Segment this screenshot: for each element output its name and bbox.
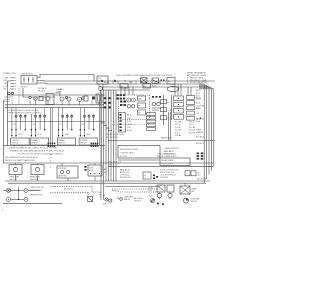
svg-text:(NOTE 7): (NOTE 7) bbox=[134, 200, 141, 202]
wire L1 top bus bbox=[37, 75, 94, 82]
svg-text:P1 P2 P3: P1 P2 P3 bbox=[120, 156, 127, 158]
oven light switch circle pair top bbox=[7, 189, 29, 193]
svg-text:(SEE NOTE 5): (SEE NOTE 5) bbox=[30, 190, 42, 192]
svg-text:W-16: W-16 bbox=[196, 121, 200, 123]
wire upper-left horizontal bbox=[7, 94, 105, 96]
surface element left front coil bbox=[29, 96, 37, 100]
wire code text column A bbox=[175, 122, 182, 138]
terminal strip TS1 cells bbox=[174, 96, 184, 119]
left border wire bbox=[3, 100, 5, 163]
wire L2 bus right half bbox=[100, 83, 203, 85]
svg-text:MOTOR: MOTOR bbox=[191, 201, 198, 203]
right upper wire code rows bbox=[196, 90, 201, 100]
ribbon staircase bends bbox=[101, 123, 112, 131]
convection motor symbol bbox=[184, 198, 200, 204]
right side wire bundle bbox=[199, 84, 214, 183]
infinite switch SW2 body box bbox=[30, 138, 48, 145]
wire bottom rail left bbox=[3, 203, 62, 205]
svg-text:P7-1 P7-2 P7-3: P7-1 P7-2 P7-3 bbox=[162, 163, 173, 165]
wire lower rails bbox=[5, 181, 210, 183]
svg-text:SWITCH: SWITCH bbox=[12, 143, 19, 145]
svg-text:ELECTRONIC OVEN: ELECTRONIC OVEN bbox=[120, 149, 138, 151]
surface element LF outer bbox=[46, 94, 54, 105]
wire N long bus bbox=[37, 80, 215, 83]
small box lower center bbox=[143, 172, 151, 179]
wire burner feed segment bbox=[23, 88, 55, 97]
terminal dark block bbox=[92, 97, 95, 100]
relay K2 box bbox=[143, 84, 151, 89]
lock assembly box bbox=[88, 165, 102, 176]
junction dot on N bus bbox=[124, 80, 125, 81]
cooling fan symbol bbox=[151, 199, 155, 203]
surface light indicator circles bbox=[8, 92, 14, 94]
wire left riser bbox=[6, 81, 8, 145]
relay boxes bottom right bbox=[157, 185, 174, 192]
wire right lower rail bbox=[108, 166, 213, 168]
junction box top right of burners bbox=[97, 76, 108, 84]
svg-text:R-16: R-16 bbox=[196, 96, 200, 98]
svg-text:POWER CORD: POWER CORD bbox=[3, 73, 16, 75]
svg-text:LOCK MOTOR BU-18: LOCK MOTOR BU-18 bbox=[160, 175, 176, 177]
relay K1 box bbox=[120, 84, 128, 89]
wire code column small bbox=[50, 154, 53, 168]
svg-text:OVEN: OVEN bbox=[196, 130, 201, 132]
svg-text:LATCH SW: LATCH SW bbox=[58, 175, 67, 178]
svg-text:P9-1 P9-2 P9-3 P9-4 P9-5: P9-1 P9-2 P9-3 P9-4 P9-5 LOCK SW GY-18 C… bbox=[18, 153, 63, 155]
svg-text:UNLOCK SW V-18: UNLOCK SW V-18 bbox=[160, 172, 174, 174]
svg-text:Y-18: Y-18 bbox=[196, 113, 199, 115]
oven lamp box 2 bbox=[30, 165, 44, 181]
svg-text:L1-BK: L1-BK bbox=[4, 77, 10, 79]
door latch switch box bbox=[57, 166, 78, 178]
svg-text:MOTOR DR-16: MOTOR DR-16 bbox=[120, 177, 131, 179]
text rows under EOC left bbox=[104, 162, 121, 174]
center bottom text bbox=[64, 187, 153, 197]
wire burner lower bus bbox=[5, 104, 104, 106]
right lower small boxes bbox=[185, 171, 201, 177]
door switch label right bbox=[196, 106, 205, 135]
svg-text:BK W R: BK W R bbox=[21, 86, 28, 88]
infinite switch SW1 body box bbox=[11, 138, 29, 145]
svg-text:SW COM BK-14 P9-9 GY-18 D: SW COM BK-14 P9-9 GY-18 DLB OR-14 bbox=[5, 157, 38, 159]
svg-text:OFF HI LO OFF HI LO: OFF HI LO OFF HI LO OFF HI LO OFF HI LO bbox=[8, 112, 43, 114]
transformer box bottom right bbox=[180, 186, 197, 194]
svg-text:P2-8 GY-18: P2-8 GY-18 bbox=[196, 143, 205, 145]
svg-text:BU-18 W-18: BU-18 W-18 bbox=[198, 179, 207, 181]
wire switch box drops bbox=[14, 145, 91, 148]
svg-text:N.C.: N.C. bbox=[198, 175, 202, 177]
fuse link box A bbox=[152, 78, 159, 84]
oven sensor circles bbox=[152, 102, 162, 112]
wire right mid rail bbox=[108, 140, 215, 142]
svg-text:K2: K2 bbox=[144, 86, 146, 88]
svg-text:P6-1 R: P6-1 R bbox=[109, 164, 115, 166]
wire switch crossing bus bbox=[7, 121, 105, 123]
dashed run upper bbox=[50, 187, 100, 197]
oven light switch circle pair bottom bbox=[7, 198, 29, 202]
svg-text:P1-6 BU: P1-6 BU bbox=[175, 135, 182, 137]
dark marks above sensor bbox=[152, 96, 161, 98]
svg-text:CONV W-14: CONV W-14 bbox=[120, 175, 129, 177]
svg-text:NOTE: DISCONNECT POWER BEFORE: NOTE: DISCONNECT POWER BEFORE SERVICING … bbox=[116, 75, 173, 77]
svg-text:H1 H2: H1 H2 bbox=[87, 134, 91, 136]
center bottom wires bbox=[105, 187, 160, 193]
svg-text:P10: P10 bbox=[98, 78, 101, 80]
oven lamp box 1 bbox=[9, 165, 22, 181]
svg-text:BK-16 W-16: BK-16 W-16 bbox=[64, 189, 73, 191]
svg-text:P1-2 W: P1-2 W bbox=[175, 124, 181, 126]
svg-text:BK-18: BK-18 bbox=[127, 115, 132, 117]
drops to terminal strips bbox=[175, 84, 191, 96]
svg-text:P2-3 BR: P2-3 BR bbox=[189, 127, 196, 129]
svg-text:1250W: 1250W bbox=[56, 92, 62, 94]
wire switch bottom rail bbox=[4, 144, 106, 146]
wire L2 branch bbox=[37, 83, 100, 84]
right lower text cluster bbox=[160, 169, 178, 179]
svg-text:DLB OR-14 (SEE NOTE 6): DLB OR-14 (SEE NOTE 6) bbox=[157, 156, 177, 158]
svg-text:GY-18: GY-18 bbox=[148, 187, 153, 189]
terminal block TB1 bbox=[21, 76, 37, 85]
infinite switch SW3 contacts bbox=[58, 114, 73, 137]
svg-text:1 2 3: 1 2 3 bbox=[13, 124, 16, 126]
wire drops bus to switches bbox=[12, 108, 85, 114]
limiter block right rear bbox=[84, 96, 88, 101]
svg-text:COM W-18: COM W-18 bbox=[160, 177, 168, 179]
svg-text:P8-2 R-12: P8-2 R-12 bbox=[38, 90, 46, 92]
svg-text:MERCURY SW: MERCURY SW bbox=[30, 194, 42, 196]
text rows mid lower left of boxes bbox=[120, 168, 131, 179]
svg-text:P1-4 OR: P1-4 OR bbox=[175, 130, 182, 132]
svg-text:40W 120V: 40W 120V bbox=[9, 179, 18, 181]
svg-text:Y-18: Y-18 bbox=[127, 127, 130, 129]
svg-text:OR-18: OR-18 bbox=[127, 124, 132, 126]
dotted separator row bbox=[112, 124, 150, 126]
svg-text:W-16: W-16 bbox=[196, 103, 200, 105]
svg-text:SURFACE UNIT SWITCHES (SEE NOT: SURFACE UNIT SWITCHES (SEE NOTE 4) P9-6 … bbox=[10, 150, 64, 153]
breaker box B bbox=[167, 78, 175, 85]
bottom small motor circles bbox=[103, 195, 112, 205]
plug symbol on N bus A bbox=[101, 80, 103, 82]
svg-text:P5-1 BK P5-2 W: P5-1 BK P5-2 W bbox=[109, 162, 121, 164]
svg-text:L.FRONT: L.FRONT bbox=[12, 140, 19, 142]
left burner text rows bbox=[4, 96, 11, 103]
spark module component bbox=[88, 197, 93, 202]
cable loop ellipse bbox=[167, 86, 179, 91]
component marks between boxes bbox=[161, 80, 165, 81]
wire bottom connections bbox=[11, 187, 41, 200]
svg-text:P4-1 GY P4-2 V: P4-1 GY P4-2 V bbox=[106, 137, 119, 139]
svg-text:CONTROL (EOC): CONTROL (EOC) bbox=[120, 153, 135, 155]
svg-text:P2-5 PK: P2-5 PK bbox=[189, 132, 196, 134]
svg-text:DOOR SW: DOOR SW bbox=[58, 168, 67, 170]
svg-text:H1 H2: H1 H2 bbox=[18, 134, 22, 136]
right mid cells grid bbox=[197, 153, 204, 160]
right corner note text block bbox=[187, 72, 208, 85]
right column extra rows bbox=[196, 137, 205, 146]
dark terminal grid upper right bbox=[117, 94, 126, 99]
svg-text:N.O.: N.O. bbox=[198, 172, 202, 174]
power cord label text bbox=[3, 73, 33, 75]
connector ladder P1 bbox=[119, 113, 132, 133]
svg-text:R.FRONT: R.FRONT bbox=[80, 140, 87, 142]
svg-text:SWITCH: SWITCH bbox=[80, 143, 87, 145]
svg-text:P2-7 BU-18: P2-7 BU-18 bbox=[196, 137, 205, 139]
bus labels right half bbox=[104, 82, 156, 87]
svg-text:BK-16 W-16: BK-16 W-16 bbox=[134, 198, 143, 200]
fuse box with X bbox=[141, 78, 148, 83]
limiter block left front bbox=[39, 96, 43, 100]
svg-text:XFMR: XFMR bbox=[192, 188, 197, 190]
wire aux bus bbox=[100, 86, 199, 88]
svg-text:H1 H2: H1 H2 bbox=[38, 134, 42, 136]
infinite switch SW4 contacts bbox=[80, 114, 95, 137]
svg-text:P4 BK-16: P4 BK-16 bbox=[112, 190, 119, 192]
svg-text:P2-4 TN: P2-4 TN bbox=[189, 130, 196, 132]
wire burner lower bus 2 bbox=[5, 107, 104, 109]
svg-text:P7: P7 bbox=[144, 175, 146, 177]
infinite switch SW2 contacts bbox=[31, 114, 46, 137]
svg-text:W-16: W-16 bbox=[196, 93, 200, 95]
power cord dashed boundary bbox=[12, 88, 19, 104]
svg-text:RELAY BOARD: RELAY BOARD bbox=[162, 159, 175, 162]
svg-text:OR-18: OR-18 bbox=[196, 98, 201, 100]
motor circles bottom right bbox=[157, 193, 172, 199]
right mid text rows bbox=[157, 153, 177, 158]
svg-text:W-18: W-18 bbox=[127, 118, 131, 120]
bottom right small marks bbox=[157, 179, 207, 205]
svg-text:P8-1 BK-12: P8-1 BK-12 bbox=[38, 88, 47, 90]
svg-text:L1-BK-12 H1-OR-14 H2-Y-14 L: L1-BK-12 H1-OR-14 H2-Y-14 L1-BK-12 H1-OR… bbox=[8, 148, 57, 150]
wire verticals into lamps bbox=[16, 163, 96, 181]
plug symbol on N bus B bbox=[114, 80, 116, 82]
text near disconnect area bbox=[38, 88, 47, 93]
svg-text:W-14: W-14 bbox=[152, 86, 156, 88]
svg-text:(SEE NOTE 3): (SEE NOTE 3) bbox=[161, 137, 172, 139]
svg-text:N.C.: N.C. bbox=[168, 102, 172, 104]
svg-text:N.O.: N.O. bbox=[168, 118, 172, 120]
lock motor switch column bbox=[161, 95, 172, 125]
wire code text column B bbox=[189, 122, 196, 135]
vertical harness ribbon bbox=[101, 90, 116, 200]
electronic oven control box bbox=[118, 146, 160, 159]
svg-text:SENSOR: SENSOR bbox=[196, 132, 204, 134]
connector blob CN6 bbox=[91, 143, 99, 147]
svg-text:P1-1 BK: P1-1 BK bbox=[175, 122, 182, 124]
svg-text:R-12: R-12 bbox=[129, 82, 133, 84]
wire bottom left feed bbox=[3, 190, 7, 192]
bottom left text block bbox=[30, 187, 44, 196]
wire inter-group verticals bbox=[50, 95, 101, 163]
svg-text:1 2 3: 1 2 3 bbox=[32, 124, 35, 126]
svg-text:DOOR LOCK SW GY-18: DOOR LOCK SW GY-18 bbox=[160, 169, 178, 171]
wire mid band rail bbox=[4, 162, 214, 164]
dark marks left of lock assy bbox=[85, 166, 87, 171]
svg-text:P1-3 R: P1-3 R bbox=[175, 127, 181, 129]
switch row header text bbox=[8, 110, 43, 114]
svg-text:P3-1 BK P3-2 W P3-3 R: P3-1 BK P3-2 W P3-3 R bbox=[106, 134, 124, 136]
terminal strip TS1 bracket bbox=[171, 95, 173, 120]
infinite switch SW3 body box bbox=[57, 138, 75, 145]
double ribbon cable bbox=[169, 112, 171, 141]
svg-text:SW N.O. R-14 CAVITY LAMPS: SW N.O. R-14 CAVITY LAMPS 120V bbox=[5, 159, 35, 162]
svg-text:L1 BK-14 L2 R-14 N W-14: L1 BK-14 L2 R-14 N W-14 bbox=[157, 153, 176, 155]
svg-text:R-18: R-18 bbox=[149, 195, 153, 197]
center lower text rows bbox=[106, 134, 172, 139]
svg-text:SWITCH: SWITCH bbox=[58, 143, 65, 145]
power cord terminal rows bbox=[4, 77, 16, 90]
text right of EOC box bbox=[164, 147, 180, 155]
svg-text:P2-1 GY: P2-1 GY bbox=[189, 122, 196, 124]
dark cells lower center bbox=[153, 175, 158, 180]
connector blob CN5 bbox=[48, 143, 56, 147]
svg-text:BK W: BK W bbox=[98, 81, 103, 83]
svg-text:V-18: V-18 bbox=[148, 190, 151, 192]
svg-text:H1 H2: H1 H2 bbox=[65, 134, 69, 136]
dashed run lower bbox=[50, 193, 88, 197]
bottom inline contacts bbox=[117, 197, 143, 203]
component column boxes bbox=[138, 96, 146, 115]
svg-text:DLB: DLB bbox=[138, 99, 141, 101]
svg-text:BU-18: BU-18 bbox=[127, 130, 132, 132]
relay dashed enclosure bbox=[119, 95, 150, 120]
surface element left rear coil bbox=[60, 96, 71, 101]
svg-text:OVEN LIGHT SW: OVEN LIGHT SW bbox=[30, 187, 44, 189]
svg-text:OVEN VENT: OVEN VENT bbox=[124, 197, 133, 199]
relay board box bbox=[160, 158, 190, 166]
infinite switch SW4 body box bbox=[79, 138, 97, 145]
wire verticals bottom right bbox=[160, 183, 186, 193]
wire drops burners to bus bbox=[30, 101, 99, 105]
svg-text:SENSOR: SENSOR bbox=[152, 110, 160, 112]
small circle under junction box bbox=[99, 84, 103, 93]
terminal strip TS2 cells bbox=[187, 96, 201, 121]
bus tick drops right half bbox=[108, 81, 160, 84]
svg-text:BROIL R-14: BROIL R-14 bbox=[120, 172, 129, 174]
surface element right rear coil bbox=[78, 97, 85, 102]
dark terminal grid center bbox=[104, 97, 111, 108]
svg-text:N W-14: N W-14 bbox=[4, 101, 10, 103]
svg-text:R-18: R-18 bbox=[127, 121, 131, 123]
infinite switch SW1 contacts bbox=[11, 114, 26, 137]
svg-text:SWITCH: SWITCH bbox=[31, 143, 38, 145]
svg-text:1 2 3: 1 2 3 bbox=[59, 124, 62, 126]
mid band text rows left bbox=[5, 148, 64, 162]
node L1 corner bbox=[7, 80, 10, 82]
drops into relay enclosure bbox=[121, 87, 133, 95]
wire EOC lower stub bbox=[118, 159, 160, 161]
wire segment to left rear bbox=[55, 93, 60, 97]
clock motor circle pair bbox=[127, 98, 135, 108]
right front element outline bbox=[96, 94, 102, 103]
svg-text:1 2 3: 1 2 3 bbox=[81, 124, 84, 126]
dark cells pair bbox=[120, 101, 126, 107]
svg-text:N-W: N-W bbox=[4, 80, 8, 82]
svg-text:DOOR SW: DOOR SW bbox=[196, 106, 204, 108]
svg-text:BK-16: BK-16 bbox=[196, 90, 201, 92]
stacked component column right of ladder bbox=[147, 113, 156, 131]
svg-text:BK-16: BK-16 bbox=[196, 108, 201, 110]
wire aux bus 2 bbox=[103, 89, 150, 91]
